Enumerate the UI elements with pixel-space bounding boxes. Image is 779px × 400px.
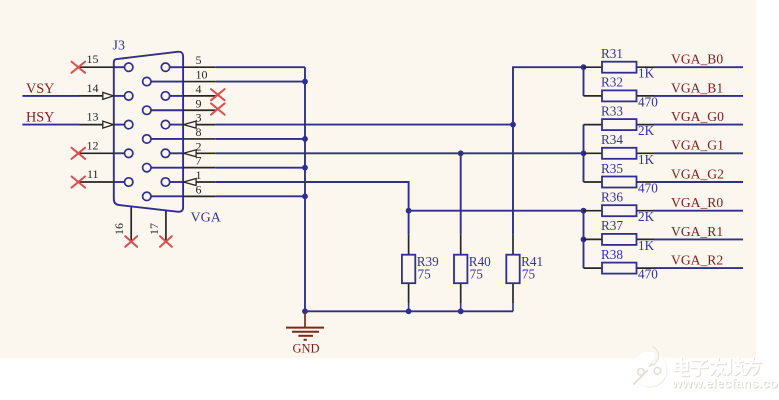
J3 pin 2 — [161, 139, 215, 157]
J3 pin 13 — [80, 110, 133, 129]
svg-text:7: 7 — [196, 154, 202, 168]
svg-text:2: 2 — [196, 139, 202, 153]
svg-text:75: 75 — [470, 266, 484, 281]
wire pin1 red signal — [216, 182, 409, 211]
svg-text:VSY: VSY — [26, 81, 54, 97]
svg-text:VGA_R0: VGA_R0 — [671, 195, 723, 210]
wire G group bus — [583, 125, 585, 182]
wire VSY — [22, 95, 79, 97]
J3 reference designator — [113, 39, 125, 54]
wire ground rail — [305, 310, 513, 312]
resistor R31 — [584, 46, 655, 81]
svg-text:12: 12 — [87, 138, 99, 152]
svg-text:R35: R35 — [601, 161, 623, 176]
resistor R33 — [584, 103, 655, 138]
resistor R34 — [584, 132, 655, 167]
wire net VGA_R0 — [654, 210, 743, 212]
wire drop to R39 — [408, 211, 410, 235]
svg-text:GND: GND — [292, 342, 319, 356]
svg-text:R32: R32 — [601, 75, 623, 90]
svg-text:VGA_G0: VGA_G0 — [671, 109, 724, 124]
wire pin8 to ground bus — [216, 138, 305, 140]
junction R31 — [581, 64, 587, 70]
resistor R32 — [584, 75, 659, 110]
ground bus vertical — [304, 67, 306, 311]
J3 pin 16 — [112, 207, 137, 247]
net label VGA_G1 — [671, 138, 724, 153]
svg-text:VGA_G1: VGA_G1 — [671, 138, 724, 153]
svg-text:VGA: VGA — [191, 211, 222, 226]
wire pin7 to ground bus — [216, 167, 305, 169]
svg-text:1K: 1K — [638, 66, 655, 81]
junction rail/R40 — [458, 308, 464, 314]
J3 pin 4 — [161, 82, 224, 100]
junction R36 — [581, 208, 587, 214]
svg-text:17: 17 — [147, 223, 161, 235]
J3 pin 15 — [72, 52, 133, 73]
wire net VGA_R1 — [654, 238, 743, 240]
junction pin6/bus — [302, 193, 308, 199]
svg-text:10: 10 — [196, 68, 208, 82]
svg-text:15: 15 — [87, 52, 99, 66]
resistor R40 — [454, 235, 491, 311]
svg-text:11: 11 — [87, 167, 99, 181]
svg-text:HSY: HSY — [26, 110, 54, 126]
wire pin10 to ground bus — [216, 81, 305, 83]
wire pin3 blue signal — [216, 124, 513, 126]
wire net VGA_G2 — [654, 181, 743, 183]
svg-text:R36: R36 — [601, 190, 623, 205]
junction pin7/bus — [302, 165, 308, 171]
resistor R36 — [584, 190, 655, 225]
junction pin8/bus — [302, 136, 308, 142]
J3 pin 1 — [161, 168, 215, 186]
J3 pin 9 — [143, 96, 225, 114]
junction R37 — [581, 237, 587, 243]
wire pin6 to ground bus — [216, 195, 305, 197]
svg-text:R38: R38 — [601, 247, 623, 262]
watermark logo (decorative) — [632, 347, 779, 392]
svg-text:3: 3 — [196, 111, 202, 125]
net label VGA_B0 — [671, 52, 723, 67]
svg-text:R33: R33 — [601, 103, 623, 118]
svg-text:13: 13 — [87, 110, 99, 124]
wire blue riser to R31/R32 group — [513, 67, 584, 235]
junction R40 drop — [458, 150, 464, 156]
J3 pin 5 — [161, 53, 215, 71]
J3 pin 11 — [72, 167, 133, 188]
resistor R39 — [402, 235, 439, 311]
svg-text:R31: R31 — [601, 46, 623, 61]
connector J3 body — [114, 52, 183, 212]
net label VGA_B1 — [671, 80, 723, 95]
J3 pin 7 — [143, 154, 216, 172]
svg-text:9: 9 — [196, 96, 202, 110]
svg-text:R34: R34 — [601, 132, 623, 147]
resistor R41 — [506, 235, 543, 311]
J3 pin 17 — [147, 211, 172, 247]
svg-text:75: 75 — [418, 266, 432, 281]
svg-text:2K: 2K — [638, 209, 655, 224]
svg-text:VGA_B1: VGA_B1 — [671, 80, 723, 95]
wire drop to R40 — [460, 153, 462, 235]
wire net VGA_R2 — [654, 267, 743, 269]
svg-text:J3: J3 — [113, 39, 125, 54]
junction R39 drop — [406, 208, 412, 214]
junction rail/gnd — [302, 308, 308, 314]
resistor R35 — [584, 161, 659, 196]
svg-text:8: 8 — [196, 125, 202, 139]
svg-text:16: 16 — [112, 223, 126, 235]
svg-text:2K: 2K — [638, 123, 655, 138]
wire red signal to R36 group — [409, 210, 584, 212]
net label VGA_R0 — [671, 195, 723, 210]
resistor R38 — [584, 247, 659, 282]
J3 pin 14 — [80, 81, 133, 100]
svg-text:1: 1 — [196, 168, 202, 182]
net label VGA_R2 — [671, 253, 723, 268]
svg-text:R37: R37 — [601, 218, 623, 233]
wire net VGA_G0 — [654, 124, 743, 126]
junction R34 — [581, 150, 587, 156]
svg-text:1K: 1K — [638, 238, 655, 253]
ground symbol GND — [286, 311, 324, 355]
net label VGA_R1 — [671, 224, 723, 239]
wire pin2 green signal — [216, 152, 584, 154]
net label VSY — [26, 81, 54, 97]
J3 pin 3 — [161, 111, 215, 129]
wire net VGA_G1 — [654, 152, 743, 154]
wire net VGA_B1 — [654, 95, 743, 97]
junction blue riser — [510, 122, 516, 128]
net label HSY — [26, 110, 54, 126]
svg-text:14: 14 — [87, 81, 99, 95]
wire B group bus — [583, 67, 585, 96]
svg-text:5: 5 — [196, 53, 202, 67]
wire R group bus — [583, 211, 585, 268]
J3 pin 10 — [143, 68, 216, 86]
wire HSY — [22, 124, 79, 126]
svg-text:1K: 1K — [638, 152, 655, 167]
svg-text:6: 6 — [196, 182, 202, 196]
svg-text:VGA_B0: VGA_B0 — [671, 52, 723, 67]
resistor R37 — [584, 218, 655, 253]
net label VGA_G2 — [671, 166, 724, 181]
J3 pin 12 — [72, 138, 133, 159]
J3 value label VGA — [191, 211, 222, 226]
svg-text:VGA_G2: VGA_G2 — [671, 166, 724, 181]
svg-text:4: 4 — [196, 82, 202, 96]
svg-text:www.elecfans.com: www.elecfans.com — [671, 376, 779, 391]
junction rail/R39 — [406, 308, 412, 314]
junction pin10/bus — [302, 79, 308, 85]
svg-text:75: 75 — [522, 266, 536, 281]
J3 pin 8 — [143, 125, 216, 143]
net label VGA_G0 — [671, 109, 724, 124]
svg-text:VGA_R2: VGA_R2 — [671, 253, 723, 268]
svg-text:VGA_R1: VGA_R1 — [671, 224, 723, 239]
wire net VGA_B0 — [654, 66, 743, 68]
wire pin5 to ground bus — [216, 66, 305, 68]
J3 pin 6 — [143, 182, 216, 200]
